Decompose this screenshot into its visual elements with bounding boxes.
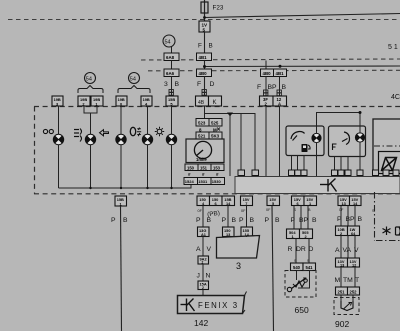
icon trailer	[43, 129, 53, 133]
svg-text:TM: TM	[343, 277, 353, 284]
wire dashed page border top	[8, 19, 400, 21]
svg-text:B: B	[207, 217, 212, 224]
wire 15V5 long drop to bottom edge	[272, 206, 274, 331]
node wire colour P B mid	[222, 217, 237, 224]
connector 251	[336, 287, 348, 295]
svg-text:541: 541	[306, 265, 314, 270]
svg-text:B: B	[312, 217, 317, 224]
connector 19B/3 lamp1 feed	[52, 96, 63, 106]
fuel gauge needle icon	[291, 131, 305, 140]
component U-right warning module box	[373, 119, 400, 172]
svg-text:F: F	[197, 81, 201, 88]
svg-text:4C: 4C	[391, 94, 400, 101]
node wire colour P B box3a	[239, 217, 255, 224]
svg-text:B: B	[282, 84, 287, 91]
wire warning lamp riser	[317, 113, 361, 134]
connector 541	[303, 263, 316, 271]
svg-text:0F: 0F	[198, 209, 203, 213]
node wire colour J N	[197, 273, 211, 280]
wire temp col c	[354, 206, 356, 227]
connector 6A8 column172	[164, 53, 179, 61]
connector 540	[291, 263, 304, 271]
connector 19B/2 lamp2 feed a	[78, 96, 90, 106]
wire speedo feed	[204, 106, 206, 118]
connector 1W/64	[348, 226, 360, 236]
svg-text:DR: DR	[296, 246, 306, 253]
node wire colour R DR D	[288, 246, 314, 253]
svg-text:F23: F23	[213, 5, 224, 12]
connector 521/5K3 speedo lower	[196, 132, 222, 139]
connector pins temp gauge	[332, 170, 364, 176]
wire jumper bus y113	[205, 114, 256, 171]
svg-text:BP: BP	[346, 216, 356, 223]
wire drop from harness to 4B0 pair	[265, 61, 267, 70]
svg-text:P: P	[239, 217, 244, 224]
connector 3F/2	[260, 96, 274, 106]
svg-text:4B: 4B	[198, 100, 205, 106]
node bus junctions	[89, 187, 172, 189]
wire lamp5 drop	[171, 106, 173, 135]
svg-text:M: M	[335, 277, 341, 284]
lamp sidelight	[166, 134, 176, 144]
icon high beam	[130, 127, 141, 136]
speedometer U-speedo box	[186, 139, 224, 163]
svg-text:540: 540	[293, 265, 301, 270]
connector 15B/14	[222, 196, 235, 206]
svg-text:1524: 1524	[185, 179, 195, 184]
wire fuel col b	[300, 206, 302, 230]
wire solid bus to gauges	[205, 65, 400, 68]
wire lamp4 to bus	[147, 145, 149, 188]
connector 150/151/153 speedo out	[185, 164, 224, 171]
dash-dot divider inside right box	[374, 145, 400, 147]
cluster flexprint band	[235, 177, 400, 194]
svg-text:P: P	[222, 217, 227, 224]
connector pin jumper b	[252, 170, 259, 176]
wire lamp2 merge	[84, 106, 97, 135]
connector 15V/1	[304, 196, 317, 206]
component 54 circle left	[85, 73, 96, 84]
connector 13V/13	[336, 258, 348, 267]
wire supply line from fuse to right edge	[205, 14, 400, 18]
connector 15V/14	[350, 196, 362, 206]
wire	[204, 77, 206, 97]
wire	[354, 236, 356, 259]
node fuse junction	[203, 16, 206, 19]
wire	[295, 239, 297, 264]
connector inline splice	[277, 90, 281, 96]
wire temp col a	[340, 206, 342, 227]
svg-text:3: 3	[236, 261, 241, 271]
svg-text:BP: BP	[299, 217, 309, 224]
svg-text:A: A	[196, 246, 201, 253]
wire	[308, 239, 310, 264]
connector 9A2	[198, 256, 209, 265]
connector 4B0 gauge feed	[261, 69, 274, 77]
svg-text:A: A	[278, 101, 281, 106]
svg-text:5K3: 5K3	[211, 134, 220, 139]
svg-text:B: B	[250, 217, 255, 224]
svg-text:650: 650	[295, 305, 309, 315]
node K line label	[320, 179, 337, 192]
wire long drop left of fuel gauge b	[279, 106, 281, 176]
svg-text:0F: 0F	[339, 208, 344, 212]
lamp trailer indicator	[53, 134, 63, 144]
svg-text:3: 3	[164, 81, 168, 88]
svg-text:902: 902	[335, 319, 349, 329]
svg-text:B: B	[175, 81, 180, 88]
svg-text:A: A	[335, 247, 340, 254]
wire	[347, 236, 349, 259]
svg-text:0F: 0F	[241, 209, 246, 213]
node riser junction	[359, 111, 362, 114]
connector 15B/5 lamp5 feed	[166, 96, 178, 106]
wire	[171, 47, 173, 53]
wire	[202, 290, 204, 296]
node splice marks under row	[198, 208, 376, 213]
connector 12/A	[273, 96, 287, 106]
connector 10B/2	[336, 226, 348, 236]
svg-text:N: N	[206, 273, 211, 280]
svg-text:B: B	[358, 216, 363, 223]
wire dash-dot region divider	[375, 192, 400, 241]
node asterisk note	[383, 227, 400, 236]
node bus junction	[203, 65, 206, 68]
connector 4B1 column204	[197, 53, 212, 61]
svg-text:4B1: 4B1	[199, 55, 208, 60]
connector 13V/12	[348, 258, 360, 267]
svg-text:B: B	[209, 43, 213, 50]
wire	[171, 77, 173, 97]
wire into box3 a	[227, 237, 229, 238]
wire temp lamp down	[359, 142, 361, 176]
lamp turn signal	[116, 134, 126, 144]
wire	[354, 267, 356, 287]
svg-text:B: B	[275, 217, 280, 224]
connector 4B1 gauge feed	[274, 69, 287, 77]
brace under 54 left	[78, 86, 103, 94]
svg-text:K: K	[213, 100, 217, 106]
wire	[265, 77, 267, 97]
gauge U-temp box	[329, 126, 366, 157]
connector pin jumper a	[238, 170, 245, 176]
svg-text:153: 153	[213, 166, 221, 171]
wire temp gauge pins	[335, 157, 349, 171]
component 3 box	[217, 236, 260, 272]
wire	[171, 61, 173, 70]
connector inline splice	[202, 90, 206, 96]
svg-text:150: 150	[187, 166, 195, 171]
svg-text:4B0: 4B0	[199, 71, 208, 76]
wire lamp5 to bus	[171, 145, 173, 188]
wire ground long drop left	[121, 206, 122, 331]
connector 15B/1 lamp ground out	[115, 196, 127, 206]
component FENIX 3 ECU box	[178, 292, 247, 314]
wire lamp ground bus	[59, 184, 192, 188]
svg-text:P: P	[265, 217, 270, 224]
wire jumper drop pin	[240, 114, 242, 171]
svg-text:4B1: 4B1	[276, 71, 285, 76]
wire jumper drop mid	[229, 114, 231, 176]
wire	[204, 61, 206, 70]
connector 15A/2	[198, 281, 209, 290]
connector 4B K cluster feed	[196, 96, 222, 106]
node wire colour P B left	[111, 217, 128, 224]
node bus tap	[279, 65, 282, 68]
node wire colour F BP B	[257, 84, 287, 91]
icon box door	[379, 152, 400, 174]
lamp fuel warning	[312, 133, 321, 142]
wire fuel col a	[293, 206, 295, 230]
gauge U-fuel box	[286, 126, 324, 156]
node wire colour P B fenix	[196, 217, 212, 224]
svg-text:P: P	[291, 217, 296, 224]
svg-text:4B0: 4B0	[263, 71, 272, 76]
svg-text:251: 251	[338, 289, 346, 294]
wire fuel col c	[307, 206, 309, 230]
svg-text:FENIX 3: FENIX 3	[198, 301, 239, 310]
svg-text:BP: BP	[268, 84, 278, 91]
connector pins right box	[373, 170, 400, 176]
node wire colour A V	[196, 246, 212, 253]
component 650 fuel sender dashed box	[285, 271, 316, 298]
connector 15V/13	[338, 196, 350, 206]
svg-text:T: T	[355, 277, 359, 284]
lamp high beam	[142, 134, 152, 144]
connector 523/525 speedo top	[196, 119, 222, 127]
connector 4B0 column204	[197, 69, 212, 77]
instrument cluster dashed box	[34, 107, 400, 194]
icon rear fog	[74, 129, 82, 142]
wire lamp2 to bus	[90, 145, 92, 188]
svg-text:54: 54	[165, 40, 171, 46]
node wire colour P BP B temp	[337, 216, 363, 223]
svg-text:54: 54	[86, 77, 92, 83]
connector 19B/0 lamp3 feed	[116, 96, 127, 106]
wire fuel lamp down	[316, 143, 318, 176]
node wire colour P B drop	[265, 217, 281, 224]
svg-text:6A6: 6A6	[166, 71, 175, 76]
component 902 temp sensor dashed box	[334, 295, 359, 315]
svg-text:521: 521	[198, 134, 206, 139]
wire long drop left of fuel gauge	[265, 106, 267, 176]
svg-text:6A8: 6A8	[166, 55, 175, 60]
connector 19B/1 lamp2 feed b	[91, 96, 103, 106]
wire lamp4 drop	[147, 106, 149, 135]
svg-text:R: R	[288, 246, 293, 253]
fuel pump icon	[302, 144, 311, 152]
svg-text:523: 523	[198, 121, 206, 126]
svg-text:VA: VA	[343, 247, 352, 254]
connector 15V/5	[267, 196, 280, 206]
node splice marks speedo	[199, 128, 220, 133]
wire dashed harness line 51 upper	[141, 59, 400, 60]
connector 504	[287, 229, 300, 239]
wire lamp3 drop	[120, 106, 122, 135]
node splice marks speedo out	[188, 172, 219, 177]
wire	[202, 264, 204, 281]
svg-text:54: 54	[130, 77, 136, 83]
wire	[340, 236, 342, 259]
svg-text:252: 252	[350, 289, 358, 294]
svg-text:F: F	[198, 43, 202, 50]
svg-text:7: 7	[245, 201, 247, 206]
wire lamp1 to bus	[58, 145, 60, 188]
wire	[279, 77, 281, 97]
svg-text:5: 5	[203, 28, 206, 33]
temp gauge needle icon	[342, 132, 350, 145]
svg-text:D: D	[210, 81, 215, 88]
svg-text:J: J	[197, 273, 200, 280]
wire temp col b	[347, 206, 349, 227]
connector 150/4	[197, 196, 210, 206]
node jumper arrow	[227, 113, 233, 117]
connector inline splice	[169, 90, 173, 96]
svg-text:P: P	[111, 217, 116, 224]
node wire colour M TM T	[335, 277, 360, 284]
svg-text:525: 525	[211, 121, 219, 126]
svg-text:B: B	[123, 217, 128, 224]
connector 1V pin 5 below fuse	[199, 21, 210, 33]
connector 19B/4 lamp4 feed	[141, 96, 152, 106]
wire F/B down column	[204, 32, 206, 53]
connector pins fuel gauge	[289, 170, 308, 176]
lamp temp warning	[355, 133, 364, 142]
svg-text:V: V	[207, 246, 212, 253]
lamp rear fog	[85, 134, 95, 144]
wire lamp1 drop	[58, 106, 60, 135]
svg-text:B: B	[232, 217, 237, 224]
connector 15V/7	[241, 196, 253, 206]
wire mid column	[227, 206, 229, 228]
component 54 circle mid	[129, 73, 140, 84]
svg-text:1mile: 1mile	[196, 157, 207, 162]
svg-text:0: 0	[120, 101, 122, 106]
connector 150/6	[210, 196, 223, 206]
svg-text:2: 2	[202, 286, 204, 290]
svg-text:0F: 0F	[266, 208, 271, 212]
icon turn arrow	[100, 130, 109, 136]
svg-text:1530: 1530	[212, 179, 222, 184]
node wire colour V A V	[335, 247, 359, 254]
connector 13G/A1	[198, 227, 210, 237]
connector 252	[348, 287, 360, 295]
connector 505	[300, 229, 313, 239]
svg-text:F: F	[257, 84, 261, 91]
connector 6A6 column172	[164, 69, 179, 77]
component 54 circle above column172	[163, 35, 175, 47]
connector 1524/1531/1530	[184, 178, 225, 185]
connector inline splice	[264, 90, 268, 96]
connector 15V/6	[292, 196, 305, 206]
icon bulb rays	[155, 127, 164, 136]
brace under 54 mid	[118, 86, 150, 94]
svg-text:5 1: 5 1	[388, 44, 398, 51]
wire dashed harness line 4C lower	[148, 69, 400, 72]
wire fenix col lower	[202, 237, 204, 257]
wire into box3 b	[246, 236, 248, 239]
wire box3 column	[246, 206, 248, 228]
connector 155/14	[241, 227, 253, 237]
fuse F23	[201, 0, 224, 21]
temp symbol icon	[333, 144, 337, 150]
svg-text:142: 142	[194, 318, 208, 328]
wire	[340, 267, 342, 287]
connector 150/13	[223, 227, 235, 237]
svg-text:P: P	[196, 217, 201, 224]
wire lamp3 to bus	[120, 145, 122, 188]
wire fuel gauge pins	[292, 156, 305, 171]
node wire colour P BP B fuel	[291, 217, 318, 224]
svg-text:1531: 1531	[198, 179, 208, 184]
svg-text:A1: A1	[201, 232, 207, 237]
node splice marks 650	[294, 259, 310, 263]
svg-text:151: 151	[200, 166, 208, 171]
wire fenix column	[202, 206, 204, 228]
